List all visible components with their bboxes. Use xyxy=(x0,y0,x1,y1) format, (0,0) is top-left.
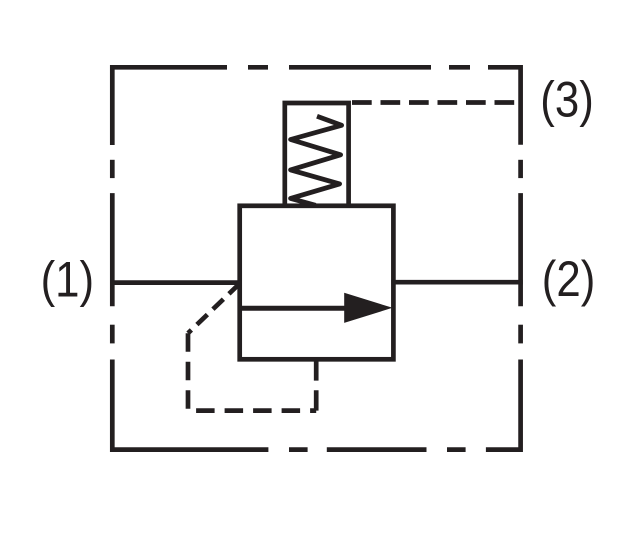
svg-text:(2): (2) xyxy=(542,251,596,307)
svg-text:(1): (1) xyxy=(41,251,95,307)
svg-text:(3): (3) xyxy=(540,71,594,127)
